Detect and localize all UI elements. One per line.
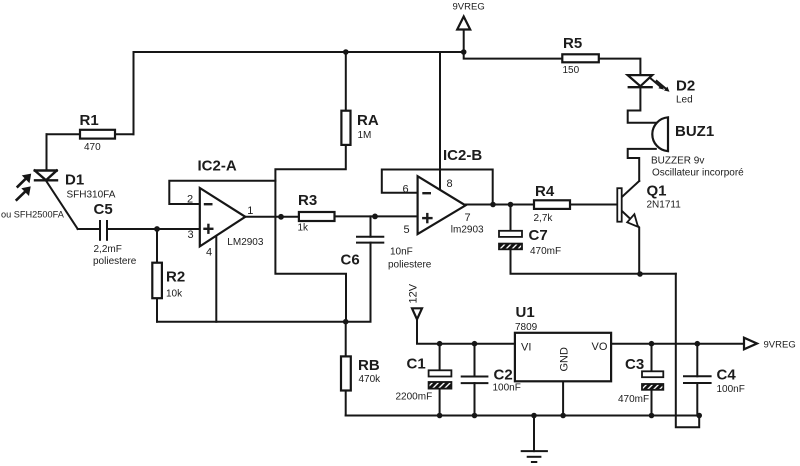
svg-text:8: 8 — [447, 178, 453, 190]
svg-text:Q1: Q1 — [647, 183, 667, 200]
svg-text:poliestere: poliestere — [388, 259, 432, 270]
svg-text:6: 6 — [403, 183, 409, 195]
svg-text:RB: RB — [358, 357, 380, 374]
svg-text:100nF: 100nF — [493, 383, 521, 394]
svg-text:C4: C4 — [717, 367, 737, 384]
svg-text:10nF: 10nF — [390, 247, 413, 258]
svg-text:7: 7 — [465, 212, 471, 224]
svg-text:5: 5 — [404, 224, 410, 236]
svg-text:IC2-B: IC2-B — [443, 147, 482, 164]
svg-text:150: 150 — [563, 65, 580, 76]
svg-text:U1: U1 — [516, 304, 535, 321]
svg-text:3: 3 — [188, 229, 194, 241]
svg-text:RA: RA — [357, 112, 379, 129]
svg-text:100nF: 100nF — [717, 384, 745, 395]
svg-text:lm2903: lm2903 — [451, 225, 484, 236]
svg-text:C7: C7 — [529, 227, 548, 244]
svg-text:ou SFH2500FA: ou SFH2500FA — [1, 210, 65, 220]
svg-text:7809: 7809 — [515, 322, 538, 333]
svg-text:1M: 1M — [358, 130, 372, 141]
svg-text:C2: C2 — [494, 367, 513, 384]
svg-text:R3: R3 — [298, 192, 317, 209]
svg-text:R5: R5 — [563, 35, 582, 52]
svg-text:2,2mF: 2,2mF — [94, 244, 122, 255]
svg-text:2N1711: 2N1711 — [647, 200, 682, 211]
svg-text:2: 2 — [187, 194, 193, 206]
svg-text:C3: C3 — [625, 356, 644, 373]
svg-text:C6: C6 — [341, 252, 360, 269]
svg-text:C5: C5 — [94, 201, 113, 218]
svg-text:9VREG: 9VREG — [453, 2, 485, 13]
svg-text:GND: GND — [559, 347, 571, 372]
svg-text:LM2903: LM2903 — [227, 237, 264, 248]
svg-text:D2: D2 — [676, 78, 695, 95]
svg-text:470: 470 — [84, 142, 101, 153]
svg-text:470k: 470k — [359, 374, 382, 385]
svg-text:R1: R1 — [80, 112, 99, 129]
svg-text:12V: 12V — [408, 283, 420, 303]
svg-text:10k: 10k — [166, 289, 183, 300]
svg-text:R2: R2 — [166, 269, 185, 286]
svg-text:1k: 1k — [298, 223, 310, 234]
svg-text:C1: C1 — [407, 356, 426, 373]
svg-text:2200mF: 2200mF — [396, 392, 433, 403]
svg-text:470mF: 470mF — [618, 394, 649, 405]
svg-text:VO: VO — [592, 341, 608, 353]
svg-text:BUZ1: BUZ1 — [675, 123, 714, 140]
svg-text:9VREG: 9VREG — [764, 340, 796, 351]
svg-text:VI: VI — [521, 342, 531, 354]
svg-text:4: 4 — [206, 247, 212, 259]
svg-text:IC2-A: IC2-A — [198, 158, 237, 175]
svg-text:BUZZER 9v: BUZZER 9v — [651, 155, 704, 166]
svg-text:D1: D1 — [65, 172, 84, 189]
svg-text:R4: R4 — [535, 183, 555, 200]
svg-text:poliestere: poliestere — [93, 256, 137, 267]
svg-text:SFH310FA: SFH310FA — [67, 190, 116, 201]
svg-text:Oscillateur incorporé: Oscillateur incorporé — [652, 168, 744, 179]
svg-text:2,7k: 2,7k — [534, 213, 554, 224]
svg-text:470mF: 470mF — [530, 246, 561, 257]
svg-text:1: 1 — [247, 205, 253, 217]
svg-text:Led: Led — [676, 95, 693, 106]
